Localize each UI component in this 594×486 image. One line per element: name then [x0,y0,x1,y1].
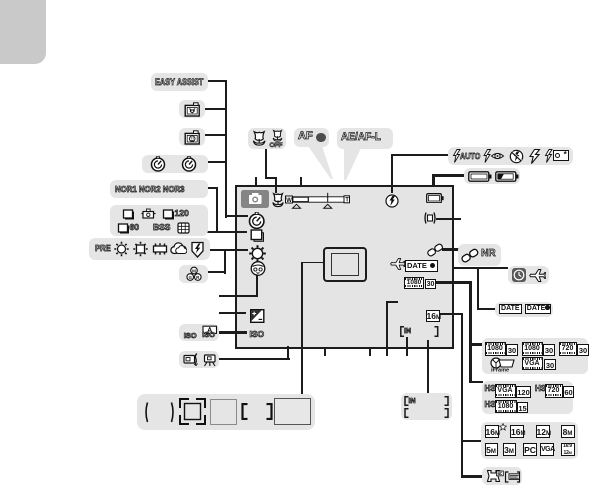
decorative corner tab [0,0,46,64]
wire: camera-shake riser [287,346,289,360]
label: focus indicator AF [294,128,329,147]
balloon tail of AF label [305,146,335,180]
svg-text:OFF: OFF [269,142,282,148]
monitor body [235,185,454,350]
wire: battery drop [432,174,434,186]
monitor icon: exposure compensation [250,309,265,323]
wire: trunk D (date) [477,267,479,311]
label: EASY ASSIST (shooting mode) [151,73,208,91]
wire: branch to HS movie box [469,381,483,383]
monitor icon: ISO indicator [250,330,265,339]
wire: trunk E (movie rail) [469,281,471,383]
wire: bottom tick a [324,348,326,356]
wire: flash lead horizontal [391,154,449,156]
balloon tail of AE/AF-L label [341,148,367,181]
monitor icon: flash mode [385,194,399,208]
label: AF area frame variations [137,394,316,430]
svg-text:T: T [345,197,349,203]
wire: stub from NOR label [206,187,218,189]
wire: trunk F (image size rail) [461,313,463,478]
wire: stub from EASY ASSIST label [206,80,226,82]
label: date imprint options [495,302,553,317]
monitor icon: smart portrait face [250,260,266,277]
label: NOR1 NOR2 NOR3 [110,180,208,198]
wire: AF-area thin riser [301,262,302,395]
wire: macro drop 1 [265,148,267,179]
wire: AF-area thin arm [301,262,323,263]
label: macro mode [248,128,286,149]
label: HS movie options [482,381,573,415]
monitor icon: movie option 1080/30 [404,277,424,289]
wire: lead to continuous icon [207,231,247,233]
label: number of exposures remaining [401,393,452,420]
monitor icon: image mode 16M [426,310,440,323]
monitor icon: zoom indicator [285,192,350,209]
monitor icon: continuous [249,228,266,244]
label: self-timer options [142,155,208,174]
wire: branch to print-date box [461,475,483,477]
wire: top tick at mode icon [255,177,257,188]
wire: macro drop 2 [275,177,277,193]
label: continuous shooting options [110,205,208,236]
monitor icon: shooting mode (camera) [241,190,270,208]
monitor icon: travel destination airplane [390,257,405,272]
label: AE/AF-L [337,128,393,149]
wire: bottom tick b [369,348,371,356]
wire: flash drop [391,154,393,194]
svg-text:W: W [286,197,292,203]
label: noise reduction [458,244,501,265]
label: flash modes [448,147,573,165]
wire: stub from BKT label [207,271,227,273]
wire: exposure-count pointer riser [386,301,388,356]
wire: date lead horizontal [452,267,508,269]
wire: branch to image size box [461,440,482,442]
svg-text:G: G [188,275,192,280]
wire: stub to DATE label [477,308,497,310]
wire: BKT riser [224,250,226,274]
label: WB fine tune cluster [179,265,208,284]
wire: stub from self-timer label [206,161,226,163]
wire: branch to movie options box [469,343,482,345]
wire: 16M tick [440,313,463,315]
label: camera shake warning [179,351,220,369]
monitor icon: noise reduction chain [427,242,443,258]
monitor icon: AF area frame [323,247,367,283]
wire: tick to exposure comp icon [219,312,246,314]
wire: lead to self-timer icon [225,215,249,217]
wire: top tick at zoom bar [300,177,302,188]
svg-text:M: M [192,268,196,273]
monitor icon: date counter [405,260,438,272]
wire: trunk A (top-left labels rail) [225,80,227,218]
monitor icon: battery level [426,193,444,204]
wire: tick to VR icon [436,218,461,220]
monitor icon: vibration reduction [423,211,437,225]
wire: smile icon riser [256,275,258,297]
wire: lead to white-balance icon [209,249,248,251]
label: white balance options [89,238,210,260]
wire: stub from smile-timer label [204,134,226,136]
wire: trunk to exposures label [427,340,429,395]
label: pet portrait auto release [179,100,205,118]
label: smile timer [179,128,205,146]
label: print date [482,467,522,486]
wire: movie tick [433,281,472,283]
wire: exposure-count pointer arm [386,301,398,303]
label: movie options [482,338,588,374]
wire: macro jog [265,177,277,179]
label: image mode options [481,422,578,460]
wire: lead from ISO label [218,331,247,333]
svg-text:iFrame: iFrame [491,368,509,373]
monitor icon: exposures remaining [400,326,440,337]
label: ISO sensitivity [179,324,220,342]
label: battery level [464,168,521,184]
wire: stub from pet-portrait label [204,108,226,110]
wire: lead from camera-shake label [218,358,290,360]
label: time zone (clock + airplane) [508,266,549,284]
monitor icon: macro [271,192,285,209]
wire: trunk B (NOR labels rail) [216,187,218,234]
wire: tick to NR chain icon [442,248,459,250]
wire: lead to smile icon horizontal [219,295,258,297]
monitor icon: self-timer [248,212,266,230]
wire: battery lead horizontal [432,174,464,176]
monitor icon: white balance [248,244,267,263]
wire: bottom tick c [406,337,408,356]
